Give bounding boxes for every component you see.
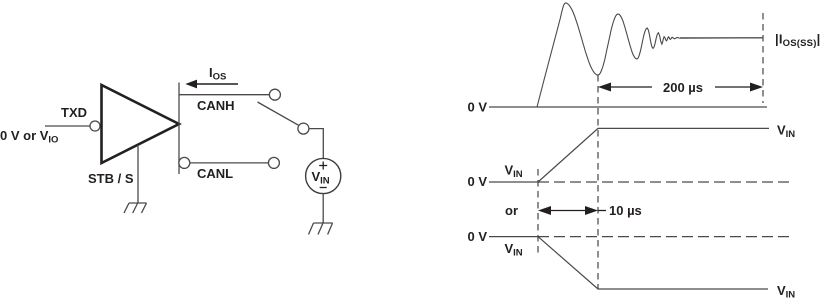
switch S1 pole circle [298, 123, 309, 134]
pin CANH terminal circle [269, 89, 280, 100]
arrow IOS current direction [185, 80, 238, 89]
svg-text:CANH: CANH [197, 98, 235, 113]
svg-text:VIN: VIN [505, 241, 523, 259]
wire 0V solid baseline waveform 2 [489, 181, 538, 183]
wire 200us measure left shaft [610, 86, 652, 88]
wire pole to VIN source [309, 129, 323, 159]
voltage source VIN circle [306, 158, 341, 193]
svg-text:VIN: VIN [505, 163, 523, 181]
voltage source minus sign [320, 187, 327, 189]
wire dashed timing line at ramp start [537, 169, 539, 254]
ground G2 (VIN source) [309, 223, 333, 235]
svg-text:STB / S: STB / S [88, 171, 134, 186]
voltage source plus sign [319, 162, 327, 170]
pin TXD input terminal circle [90, 121, 100, 131]
wire TXD input [45, 125, 91, 127]
svg-text:0 V: 0 V [467, 229, 487, 244]
wire leader to 10us label [598, 210, 606, 212]
arrow 10us measure left head [538, 206, 551, 215]
arrow 200us measure right head [750, 83, 763, 92]
svg-text:10 µs: 10 µs [609, 203, 642, 218]
pin CANL junction circle on bus [179, 157, 190, 168]
svg-text:200 µs: 200 µs [663, 80, 703, 95]
wire dashed timing line at settle [762, 13, 764, 103]
svg-text:TXD: TXD [61, 105, 87, 120]
wire CANL [190, 162, 269, 164]
waveform VIN rising ramp [538, 128, 769, 182]
wire 0V solid baseline waveform 3 [489, 236, 538, 238]
ground G1 (STB/S) [124, 203, 147, 213]
op-amp U1 driver triangle [102, 85, 180, 163]
svg-text:0 V: 0 V [467, 100, 487, 115]
svg-text:CANL: CANL [197, 166, 233, 181]
wire dashed timing line at trough [597, 75, 599, 289]
wire 200us measure right shaft [715, 86, 753, 88]
switch S1 blade [258, 102, 299, 125]
svg-text:or: or [505, 203, 518, 218]
svg-text:IOS: IOS [209, 65, 226, 83]
wire 0V dashed baseline waveform 2 [538, 181, 789, 183]
svg-text:VIN: VIN [777, 283, 795, 299]
pin CANL terminal circle [268, 157, 279, 168]
wire 0V baseline waveform 1 [489, 106, 767, 108]
arrow 10us measure right head [585, 206, 598, 215]
wire 10us measure shaft [550, 210, 587, 212]
wire 0V dashed baseline waveform 3 [538, 236, 789, 238]
node IOS(SS) steady-state level line [680, 37, 763, 39]
svg-text:VIN: VIN [777, 123, 795, 141]
svg-text:|IOS(SS)|: |IOS(SS)| [775, 32, 820, 50]
svg-text:0 V: 0 V [467, 174, 487, 189]
waveform VIN falling ramp [538, 237, 768, 289]
wire CANH [179, 94, 269, 96]
wire output vertical bus [178, 83, 180, 175]
wire VIN source to ground [322, 194, 324, 223]
waveform IOS damped oscillation [537, 3, 763, 107]
arrow 200us measure left head [598, 83, 611, 92]
svg-text:0 V or VIO: 0 V or VIO [0, 128, 58, 146]
wire STB/S pin [137, 145, 139, 203]
